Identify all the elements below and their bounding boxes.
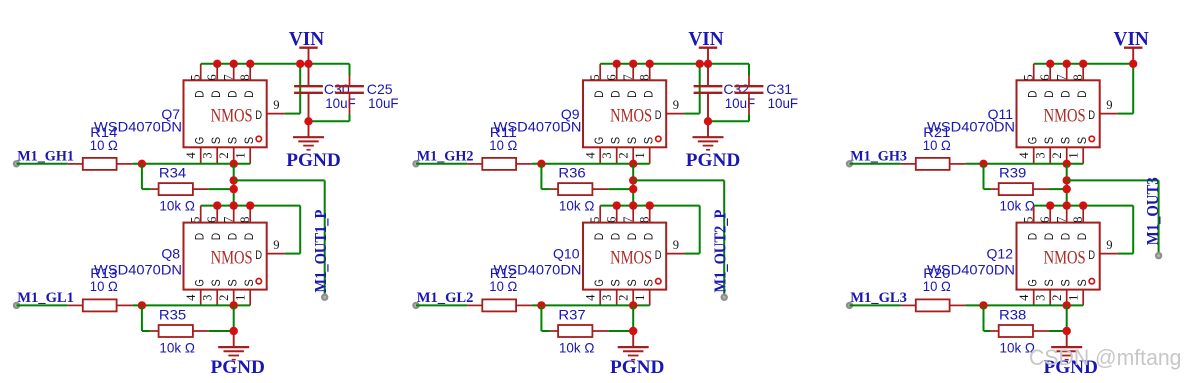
designator label Q9 (561, 106, 580, 122)
svg-text:10 Ω: 10 Ω (923, 137, 951, 153)
svg-text:6: 6 (1038, 74, 1052, 80)
port M1_GL3 (847, 303, 852, 308)
svg-text:3: 3 (1034, 295, 1048, 301)
svg-text:9: 9 (273, 238, 279, 252)
wire R12 to Q10 gate and sources (532, 304, 650, 306)
capacitor C30 10uF (294, 81, 356, 111)
svg-text:1: 1 (1067, 295, 1081, 301)
svg-text:M1_GL1: M1_GL1 (17, 290, 74, 306)
junction dot at ground node (629, 327, 637, 335)
junction dots on lower gate wire (138, 301, 238, 309)
part number label WSD4070DN (R13) (94, 261, 182, 277)
svg-text:NMOS: NMOS (1044, 248, 1086, 269)
svg-text:D: D (1059, 233, 1073, 241)
svg-text:S: S (642, 137, 656, 144)
ground PGND symbol (693, 137, 724, 150)
svg-text:D: D (655, 248, 662, 262)
svg-text:2: 2 (1050, 152, 1064, 158)
svg-text:7: 7 (221, 74, 235, 80)
wire midpoint node (Q7 source to Q8 drain) (233, 164, 235, 206)
power VIN symbol (699, 48, 717, 64)
svg-text:1: 1 (633, 295, 647, 301)
svg-text:D: D (609, 233, 623, 241)
wire VIN drain bus (Q9) (600, 63, 749, 65)
svg-text:M1_GL3: M1_GL3 (850, 290, 907, 306)
svg-text:4: 4 (1017, 152, 1031, 159)
svg-text:S: S (1059, 137, 1073, 144)
wire M1_OUT3 (1067, 180, 1159, 255)
svg-text:G: G (193, 137, 207, 144)
svg-text:3: 3 (600, 152, 614, 158)
capacitor C31 10uF (735, 81, 799, 111)
svg-text:S: S (226, 137, 240, 144)
designator label Q10 (553, 246, 580, 262)
wire Q11 pin9 to drain bus (1118, 64, 1134, 114)
svg-text:R35: R35 (159, 307, 187, 323)
svg-text:CSDN @mftang: CSDN @mftang (1029, 345, 1182, 370)
svg-text:PGND: PGND (286, 150, 341, 171)
svg-text:D: D (1088, 248, 1095, 262)
wire dropper to R36 (541, 164, 550, 189)
port M1_GL2 (413, 303, 418, 308)
power label PGND (610, 357, 665, 378)
svg-text:D: D (1042, 233, 1056, 241)
svg-text:10 Ω: 10 Ω (489, 137, 517, 153)
svg-text:VIN: VIN (289, 29, 324, 50)
wire R39 to midpoint (1049, 188, 1067, 190)
junction dots on lower drain bus (213, 201, 254, 209)
svg-text:2: 2 (217, 152, 231, 158)
svg-text:S: S (1042, 279, 1056, 286)
junction dots on midpoint (230, 176, 238, 193)
svg-text:1: 1 (1067, 152, 1081, 158)
port M1_GH1 (14, 161, 19, 166)
junction dots on gate wire (979, 160, 1071, 168)
junction dots on gate wire (138, 160, 238, 168)
svg-text:D: D (1042, 90, 1056, 98)
wire C25 parallel loop (309, 64, 350, 122)
svg-text:8: 8 (238, 74, 252, 80)
svg-text:10uF: 10uF (768, 95, 799, 111)
svg-text:NMOS: NMOS (610, 248, 652, 269)
ground PGND symbol (218, 347, 249, 360)
wire Q12 pin9 riser (1118, 206, 1134, 254)
svg-text:D: D (1059, 90, 1073, 98)
svg-text:S: S (642, 279, 656, 286)
wire Q10 sources to ground (632, 305, 634, 347)
port M1_OUT2_P (722, 295, 727, 300)
svg-text:D: D (1026, 90, 1040, 98)
svg-text:M1_GH2: M1_GH2 (417, 149, 474, 165)
svg-text:9: 9 (1106, 98, 1112, 112)
svg-text:D: D (242, 233, 256, 241)
svg-text:S: S (1059, 279, 1073, 286)
wire dropper to R34 (142, 164, 151, 189)
svg-text:9: 9 (673, 98, 679, 112)
svg-text:G: G (592, 137, 606, 144)
wire M1_OUT2_P (633, 180, 724, 297)
svg-text:4: 4 (584, 152, 598, 159)
net label M1_GH3 (850, 149, 907, 165)
resistor R12 10 Ohm (467, 265, 532, 312)
svg-text:8: 8 (1071, 217, 1085, 223)
wire R38 to ground node (1049, 330, 1067, 332)
svg-text:S: S (609, 137, 623, 144)
net label M1_GH1 (17, 149, 74, 165)
svg-text:M1_OUT3: M1_OUT3 (1143, 177, 1162, 245)
svg-text:10k Ω: 10k Ω (559, 340, 595, 356)
svg-text:8: 8 (238, 217, 252, 223)
wire M1_GH2 to R11 (416, 163, 467, 165)
part number label WSD4070DN (R14) (94, 118, 182, 134)
ground PGND symbol (293, 137, 324, 150)
svg-text:10k Ω: 10k Ω (559, 198, 595, 214)
svg-text:G: G (592, 279, 606, 286)
junction dots on drain bus (213, 60, 313, 68)
svg-text:4: 4 (184, 294, 198, 301)
svg-text:3: 3 (201, 152, 215, 158)
svg-text:R38: R38 (999, 307, 1027, 323)
svg-text:S: S (226, 279, 240, 286)
port M1_OUT1_P (322, 295, 327, 300)
svg-text:D: D (242, 90, 256, 98)
resistor R20 10 Ohm (901, 265, 966, 312)
svg-text:9: 9 (673, 238, 679, 252)
net label M1_OUT3 (1143, 177, 1162, 245)
junction dots on drain bus (1046, 60, 1137, 68)
wire VIN to C32 and PGND (707, 64, 709, 137)
wire R14 to Q7 gate and sources (132, 163, 250, 165)
svg-text:6: 6 (205, 74, 219, 80)
capacitor C32 10uF (694, 81, 756, 111)
junction dot at ground node (1063, 327, 1071, 335)
net label M1_GL3 (850, 290, 907, 306)
svg-text:D: D (226, 90, 240, 98)
svg-text:8: 8 (637, 217, 651, 223)
wire M1_GH3 to R21 (850, 163, 901, 165)
svg-text:10k Ω: 10k Ω (1000, 198, 1036, 214)
svg-text:D: D (642, 90, 656, 98)
power VIN symbol (1124, 48, 1142, 64)
svg-text:G: G (1026, 279, 1040, 286)
junction node at capacitor ground (704, 117, 712, 125)
svg-text:1: 1 (633, 152, 647, 158)
svg-text:VIN: VIN (688, 29, 723, 50)
svg-text:Q10: Q10 (553, 246, 580, 262)
svg-text:2: 2 (1050, 295, 1064, 301)
wire dropper to R39 (984, 164, 991, 189)
watermark CSDN @mftang (1029, 345, 1182, 370)
designator label Q7 (161, 106, 180, 122)
wire VIN to C30 and PGND (308, 64, 310, 137)
wire Q8 sources to ground (233, 305, 235, 347)
svg-text:Q12: Q12 (987, 246, 1014, 262)
junction dots on lower drain bus (613, 201, 654, 209)
part number label WSD4070DN (R21) (927, 118, 1015, 134)
wire Q8 drain bus (201, 205, 301, 207)
wire M1_GL1 to R13 (17, 304, 68, 306)
ground PGND symbol (618, 347, 649, 360)
power label VIN (289, 29, 324, 50)
svg-text:10uF: 10uF (325, 95, 356, 111)
svg-text:6: 6 (1038, 217, 1052, 223)
svg-text:D: D (625, 90, 639, 98)
svg-text:M1_OUT1_P: M1_OUT1_P (311, 210, 330, 293)
wire Q9 pin9 to drain bus (684, 64, 700, 114)
svg-text:NMOS: NMOS (1044, 105, 1086, 126)
svg-text:Q8: Q8 (161, 246, 180, 262)
wire R20 to Q12 gate and sources (965, 304, 1083, 306)
svg-text:5: 5 (1021, 217, 1035, 223)
svg-text:R39: R39 (999, 165, 1027, 181)
svg-text:M1_OUT2_P: M1_OUT2_P (710, 210, 729, 293)
port M1_OUT3 (1156, 253, 1161, 258)
wire Q10 pin9 riser (684, 206, 700, 254)
net label M1_GH2 (417, 149, 474, 165)
resistor R14 10 Ohm (68, 124, 133, 170)
wire M1_OUT1_P (234, 180, 325, 297)
svg-text:D: D (193, 233, 207, 241)
resistor R36 10k Ohm (550, 165, 609, 214)
wire M1_GH1 to R14 (17, 163, 68, 165)
svg-text:10 Ω: 10 Ω (923, 278, 951, 294)
svg-text:S: S (1075, 137, 1089, 144)
svg-text:7: 7 (221, 217, 235, 223)
wire R35 to ground node (209, 330, 234, 332)
ground PGND symbol (1051, 347, 1082, 360)
transistor Q11 (NMOS WSD4070DN) (1017, 64, 1118, 164)
svg-text:M1_GL2: M1_GL2 (417, 290, 474, 306)
svg-text:8: 8 (1071, 74, 1085, 80)
svg-text:10uF: 10uF (725, 95, 756, 111)
designator label Q11 (988, 106, 1014, 122)
svg-text:6: 6 (205, 217, 219, 223)
junction dots on midpoint (629, 176, 637, 193)
resistor R21 10 Ohm (901, 124, 966, 170)
wire C31 parallel loop (708, 64, 749, 122)
net label M1_OUT2_P (710, 210, 729, 293)
svg-text:NMOS: NMOS (610, 105, 652, 126)
svg-text:NMOS: NMOS (211, 248, 253, 269)
port M1_GH2 (413, 161, 418, 166)
svg-text:4: 4 (184, 152, 198, 159)
power label VIN (688, 29, 723, 50)
svg-text:7: 7 (1054, 74, 1068, 80)
svg-text:8: 8 (637, 74, 651, 80)
wire VIN drain bus (Q11) (1034, 63, 1134, 65)
power label PGND (1043, 357, 1098, 378)
designator label Q8 (161, 246, 180, 262)
svg-text:S: S (209, 279, 223, 286)
svg-text:M1_GH3: M1_GH3 (850, 149, 907, 165)
junction dots on gate wire (537, 160, 637, 168)
svg-text:3: 3 (600, 295, 614, 301)
junction dots on midpoint (1063, 176, 1071, 193)
resistor R13 10 Ohm (68, 265, 133, 312)
junction dots on drain bus (613, 60, 713, 68)
svg-text:2: 2 (617, 152, 631, 158)
svg-text:D: D (625, 233, 639, 241)
svg-text:2: 2 (617, 295, 631, 301)
wire Q7 pin9 to drain bus (285, 64, 301, 114)
wire Q8 pin9 riser (285, 206, 301, 254)
svg-text:D: D (255, 108, 262, 122)
svg-text:1: 1 (234, 152, 248, 158)
svg-text:5: 5 (1021, 74, 1035, 80)
svg-text:9: 9 (273, 98, 279, 112)
svg-text:4: 4 (584, 294, 598, 301)
wire midpoint node (Q11 source to Q12 drain) (1066, 164, 1068, 206)
part number label WSD4070DN (R12) (494, 261, 582, 277)
svg-text:10uF: 10uF (368, 95, 399, 111)
resistor R37 10k Ohm (550, 307, 609, 356)
svg-text:PGND: PGND (610, 357, 665, 378)
svg-text:7: 7 (1054, 217, 1068, 223)
port M1_GH3 (847, 161, 852, 166)
svg-text:R34: R34 (159, 165, 187, 181)
svg-text:7: 7 (621, 217, 635, 223)
part number label WSD4070DN (R11) (494, 118, 582, 134)
resistor R38 10k Ohm (991, 307, 1050, 356)
power label PGND (210, 357, 265, 378)
svg-text:D: D (609, 90, 623, 98)
wire R37 to ground node (608, 330, 633, 332)
power label PGND (286, 150, 341, 171)
svg-text:S: S (625, 137, 639, 144)
svg-text:3: 3 (201, 295, 215, 301)
svg-text:6: 6 (604, 74, 618, 80)
net label M1_GL1 (17, 290, 74, 306)
part number label WSD4070DN (R20) (927, 261, 1015, 277)
wire R11 to Q9 gate and sources (532, 163, 650, 165)
svg-text:D: D (655, 108, 662, 122)
capacitor C25 10uF (335, 81, 399, 111)
svg-text:G: G (193, 279, 207, 286)
wire R13 to Q8 gate and sources (132, 304, 250, 306)
svg-text:PGND: PGND (210, 357, 265, 378)
svg-text:D: D (1075, 233, 1089, 241)
svg-text:D: D (255, 248, 262, 262)
transistor Q9 (NMOS WSD4070DN) (583, 64, 684, 164)
svg-text:3: 3 (1034, 152, 1048, 158)
wire Q12 sources to ground (1066, 305, 1068, 347)
wire Q10 drain bus (600, 205, 700, 207)
svg-text:5: 5 (188, 74, 202, 80)
svg-text:D: D (1026, 233, 1040, 241)
transistor Q10 (NMOS WSD4070DN) (583, 206, 684, 306)
wire dropper to R38 (984, 305, 991, 331)
resistor R11 10 Ohm (467, 124, 532, 170)
svg-text:VIN: VIN (1114, 29, 1149, 50)
svg-text:D: D (226, 233, 240, 241)
designator label Q12 (987, 246, 1014, 262)
svg-text:2: 2 (217, 295, 231, 301)
transistor Q12 (NMOS WSD4070DN) (1017, 206, 1118, 306)
resistor R34 10k Ohm (150, 165, 209, 214)
resistor R39 10k Ohm (991, 165, 1050, 214)
junction dots on lower gate wire (537, 301, 637, 309)
svg-text:S: S (242, 279, 256, 286)
wire VIN drain bus (Q7) (201, 63, 350, 65)
svg-text:1: 1 (234, 295, 248, 301)
svg-text:R37: R37 (558, 307, 586, 323)
transistor Q8 (NMOS WSD4070DN) (184, 206, 285, 306)
net label M1_GL2 (417, 290, 474, 306)
wire dropper to R37 (541, 305, 550, 331)
power label VIN (1114, 29, 1149, 50)
svg-text:D: D (193, 90, 207, 98)
svg-text:5: 5 (588, 74, 602, 80)
wire dropper to R35 (142, 305, 151, 331)
junction node at capacitor ground (304, 117, 312, 125)
svg-text:10 Ω: 10 Ω (90, 137, 118, 153)
junction dots on lower gate wire (979, 301, 1071, 309)
svg-text:S: S (609, 279, 623, 286)
svg-text:9: 9 (1106, 238, 1112, 252)
svg-text:6: 6 (604, 217, 618, 223)
svg-text:10 Ω: 10 Ω (489, 278, 517, 294)
svg-text:S: S (209, 137, 223, 144)
wire Q12 drain bus (1034, 205, 1134, 207)
wire R36 to midpoint (608, 188, 633, 190)
svg-text:M1_GH1: M1_GH1 (17, 149, 74, 165)
svg-text:10k Ω: 10k Ω (159, 198, 195, 214)
wire midpoint node (Q9 source to Q10 drain) (632, 164, 634, 206)
wire M1_GL2 to R12 (416, 304, 467, 306)
svg-text:G: G (1026, 137, 1040, 144)
svg-text:4: 4 (1017, 294, 1031, 301)
junction dot at ground node (230, 327, 238, 335)
port M1_GL1 (14, 303, 19, 308)
svg-text:5: 5 (188, 217, 202, 223)
power label PGND (686, 150, 741, 171)
svg-text:S: S (1042, 137, 1056, 144)
svg-text:10 Ω: 10 Ω (90, 278, 118, 294)
svg-text:7: 7 (621, 74, 635, 80)
wire R21 to Q11 gate and sources (965, 163, 1083, 165)
svg-text:D: D (209, 90, 223, 98)
svg-text:D: D (642, 233, 656, 241)
wire M1_GL3 to R20 (850, 304, 901, 306)
resistor R35 10k Ohm (150, 307, 209, 356)
svg-text:D: D (1088, 108, 1095, 122)
svg-text:R36: R36 (558, 165, 586, 181)
svg-text:5: 5 (588, 217, 602, 223)
junction dots on lower drain bus (1046, 201, 1087, 209)
power VIN symbol (299, 48, 317, 64)
svg-text:PGND: PGND (686, 150, 741, 171)
svg-text:10k Ω: 10k Ω (159, 340, 195, 356)
svg-text:D: D (592, 233, 606, 241)
transistor Q7 (NMOS WSD4070DN) (184, 64, 285, 164)
svg-text:D: D (592, 90, 606, 98)
svg-text:D: D (209, 233, 223, 241)
svg-text:D: D (1075, 90, 1089, 98)
svg-text:S: S (1075, 279, 1089, 286)
svg-text:NMOS: NMOS (211, 105, 253, 126)
wire R34 to midpoint (209, 188, 234, 190)
svg-text:S: S (242, 137, 256, 144)
svg-text:S: S (625, 279, 639, 286)
net label M1_OUT1_P (311, 210, 330, 293)
